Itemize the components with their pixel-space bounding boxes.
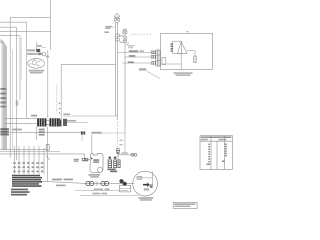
multi-pin connector cluster J1 (37, 118, 67, 126)
wire coil stem (117, 158, 119, 161)
wire switch v x47.8 (47, 50, 49, 118)
wire stub left b (0, 41, 3, 43)
wire bundle left v1 (1, 40, 3, 150)
connector block at cdi edge (156, 50, 161, 66)
row labels (129, 50, 139, 52)
connector stack above junction (116, 149, 119, 151)
table column strip 1 (207, 144, 211, 166)
wire dashed v x117.6 (117, 122, 119, 149)
flywheel inner wires (142, 171, 153, 185)
leader to flywheel label (80, 194, 138, 196)
wire bundle left v5 (5, 46, 7, 150)
wire top h2 (0, 21, 27, 23)
stamp box (173, 202, 197, 208)
wire stub left c (0, 42, 4, 44)
inline component on x47.7 (46, 145, 49, 151)
wire top h4 (0, 31, 51, 33)
flywheel magneto circle (133, 171, 158, 196)
label right of bulb2 (128, 45, 135, 47)
junction dot on magneto feed (91, 158, 93, 160)
wire vertical x16.4 (15, 27, 17, 160)
wire below cluster x36.5 (36, 127, 38, 141)
wire bundle left v2 (2, 42, 4, 151)
labels below cluster (39, 129, 45, 131)
ignition coil L2 (114, 160, 117, 168)
ignition switch row1 connector (27, 49, 40, 52)
wire dashed v x56.8 (56, 85, 58, 112)
wire vertical x10 (9, 17, 11, 158)
wiring color code table (200, 136, 233, 170)
labels below coils (107, 169, 115, 171)
CDI inner rect (173, 41, 182, 53)
wire top h1 (10, 16, 50, 18)
label headlamp (105, 26, 112, 28)
wire vertical x26.7 (26, 22, 28, 118)
label below rows (139, 68, 146, 70)
wire switch v x36.3 (35, 42, 37, 49)
CDI small element left (162, 58, 166, 65)
wire bus to cluster lower (5, 123, 37, 125)
wire harness big loop (61, 64, 117, 119)
note text block (12, 175, 42, 187)
wire junction to right (118, 153, 135, 159)
magneto inner label (93, 159, 99, 161)
wire bottom h3 (0, 153, 85, 155)
label below lower h (92, 193, 100, 195)
small label x16 (16, 101, 19, 106)
ignition coil L1 (108, 160, 112, 168)
wire y132.7 (10, 132, 81, 134)
connector blob at junction (117, 153, 120, 154)
bullet connectors row A (151, 51, 155, 64)
connector on loop left bottom (58, 120, 62, 127)
label on junction wire (121, 152, 128, 154)
wire top h5 (0, 35, 20, 37)
bullets into magneto (82, 158, 85, 161)
left edge wire labels upper (0, 88, 6, 107)
bottom-left label columns (13, 162, 43, 172)
engine / magneto case M1 (90, 154, 103, 173)
wire dashed to cdi box (131, 33, 153, 35)
wire loop top (61, 63, 115, 65)
side labels on dashed v (119, 140, 122, 142)
leader diagonal (146, 71, 160, 79)
wire stub below connector (81, 135, 83, 141)
dark connector pair near stator box (119, 179, 123, 183)
wire faint continue (102, 132, 125, 134)
flywheel inner box (137, 176, 142, 179)
wire top h3 (0, 26, 16, 28)
wire lower h (75, 190, 128, 192)
label below bottom run (56, 185, 66, 187)
stator box (120, 185, 131, 192)
label below magneto (89, 174, 101, 176)
label above lower h (94, 189, 103, 191)
label ignition switch text (29, 70, 45, 72)
wire bulb2 stem (124, 34, 126, 133)
wire dashed v x21.5 (21, 38, 23, 80)
coil element 3 (118, 160, 120, 168)
legend lines (11, 189, 30, 196)
CDI pin marks column (171, 43, 173, 52)
connector stack on bulb1 stem (116, 34, 120, 37)
wire bottom main run (42, 181, 134, 183)
headlamp bulb B1 (114, 14, 120, 23)
bullet pair on junction wire (131, 153, 134, 156)
wire bottom h1 (0, 148, 47, 150)
CDI unit U1 box (161, 34, 213, 70)
label cdi unit (174, 72, 193, 74)
label and wire y122.5 (65, 120, 76, 122)
wire v x125 down (124, 133, 126, 155)
table header text (201, 136, 232, 138)
junction tick on bottom run (96, 182, 98, 186)
wire bulb1 stem pair (116, 22, 118, 120)
wire bundle left v3 (3, 43, 5, 150)
tail lamp bulb B2 (123, 28, 127, 34)
wire turn into magneto (85, 154, 90, 160)
wire bundle left v4 (4, 45, 6, 151)
wire loop bottom (63, 115, 118, 117)
ignition switch S1 (28, 59, 45, 69)
left edge wire labels mid (0, 128, 9, 135)
wires feeding label columns (15, 146, 45, 175)
wire rows to cdi: row A (118, 53, 151, 64)
label near loop bottom (63, 113, 70, 115)
wire loop left side (60, 64, 62, 119)
flywheel arrow (143, 182, 150, 187)
bullet pair 2 (101, 181, 105, 185)
label above bottom run (52, 179, 62, 181)
connector on wire y132.7 (81, 131, 83, 134)
wire vertical x20 (19, 36, 21, 100)
CDI small element right (194, 56, 197, 63)
label after connector (91, 132, 101, 134)
connector marks bulb2 stem (123, 37, 127, 40)
label above cluster (31, 115, 37, 117)
wire bottom h2 (0, 151, 60, 153)
wire bus to cluster upper (5, 117, 37, 119)
label below flywheel (138, 197, 153, 199)
flywheel marks right of arrow (150, 184, 153, 188)
CDI internal wires (161, 51, 196, 70)
table column strip 2 (222, 144, 227, 163)
wire vertical x12.6 (12, 50, 14, 150)
wire v x47.7 lower (47, 127, 49, 182)
bullet pair 1 (86, 181, 90, 185)
label left of magneto (74, 159, 79, 161)
label right of left edge labels (12, 129, 22, 131)
wire stub left a (0, 39, 2, 41)
wire vertical from top edge (50, 0, 52, 50)
ignition switch row2 (27, 53, 49, 58)
label above switch (37, 45, 42, 47)
CDI triangle amplifier (178, 42, 188, 54)
wire v x91.8 down to magneto (91, 135, 93, 154)
